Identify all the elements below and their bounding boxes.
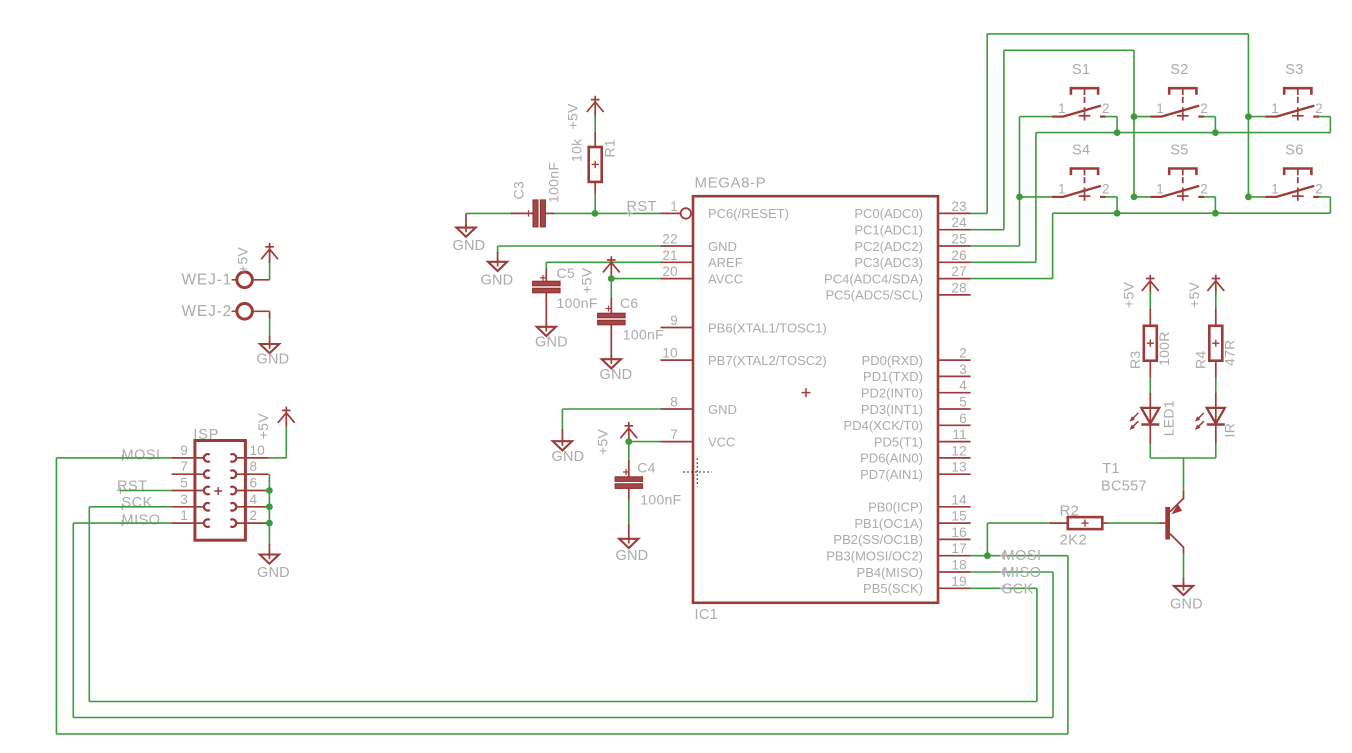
svg-text:1: 1	[180, 508, 188, 523]
svg-text:WEJ-1: WEJ-1	[182, 271, 233, 288]
svg-text:2: 2	[1102, 181, 1110, 196]
IC1 pin 23 PC0(ADC0) stub+number+name	[854, 199, 970, 221]
svg-text:ISP: ISP	[193, 427, 219, 443]
switch S3	[1265, 62, 1323, 120]
cursor crosshair	[683, 458, 712, 487]
IC1 pin 28 PC5(ADC5/SCL) stub+number+name	[825, 280, 970, 302]
label 2K2 for R2	[1060, 532, 1088, 549]
svg-text:8: 8	[250, 459, 258, 474]
wire S2 output drop	[1204, 117, 1215, 133]
svg-text:7: 7	[180, 459, 188, 474]
label MISO at ISP	[119, 513, 160, 529]
svg-text:22: 22	[662, 232, 678, 247]
node ISP pin6 junction	[266, 487, 273, 494]
wire SCK ISP segment	[89, 506, 171, 508]
switch S1	[1052, 62, 1110, 120]
svg-text:PC6(/RESET): PC6(/RESET)	[708, 206, 789, 221]
node junction VCC	[625, 438, 632, 445]
wire MOSI right vertical	[1067, 556, 1069, 734]
wire IC pin22 GND net	[498, 246, 661, 262]
svg-text:GND: GND	[257, 565, 290, 581]
IC1 pin 21 AREF stub+number+name	[661, 248, 743, 270]
svg-text:R3: R3	[1127, 351, 1143, 370]
svg-text:PC3(ADC3): PC3(ADC3)	[854, 255, 923, 270]
LED LED1	[1130, 407, 1160, 430]
label +5V for WEJ-1	[235, 246, 251, 273]
wire S3 output	[1319, 116, 1330, 118]
svg-text:2: 2	[1200, 181, 1208, 196]
svg-text:PC4(ADC4/SDA): PC4(ADC4/SDA)	[824, 271, 923, 286]
svg-text:PB1(OC1A): PB1(OC1A)	[854, 516, 923, 531]
wire R3 top	[1149, 292, 1151, 326]
ISP pin 7 left	[172, 459, 210, 478]
wire IC pin19 SCK segment	[971, 587, 1037, 589]
svg-text:3: 3	[180, 492, 188, 507]
IC1 pin 13 PD7(AIN1) stub+number+name	[860, 460, 970, 482]
wire IC pin7 VCC net	[629, 436, 661, 442]
svg-text:GND: GND	[708, 239, 737, 254]
label 100nF for C5	[557, 295, 598, 311]
IC1 pin 15 PB1(OC1A) stub+number+name	[854, 509, 970, 531]
svg-text:5: 5	[180, 476, 188, 491]
svg-text:3: 3	[959, 362, 967, 377]
svg-text:RST: RST	[117, 479, 148, 495]
svg-text:5: 5	[959, 395, 967, 410]
svg-text:2: 2	[1315, 181, 1323, 196]
svg-text:S4: S4	[1072, 143, 1090, 159]
svg-text:AVCC: AVCC	[708, 271, 743, 286]
svg-text:PC5(ADC5/SCL): PC5(ADC5/SCL)	[825, 288, 923, 303]
svg-text:+5V: +5V	[579, 267, 595, 294]
IC1 pin 25 PC2(ADC2) stub+number+name	[854, 232, 970, 254]
wire IC pin21 AREF to C5	[546, 262, 660, 270]
ground for C4	[616, 536, 649, 564]
svg-text:9: 9	[180, 443, 188, 458]
svg-text:PB6(XTAL1/TOSC1): PB6(XTAL1/TOSC1)	[708, 320, 827, 335]
svg-text:PD1(TXD): PD1(TXD)	[863, 369, 923, 384]
wire bus2 horizontal	[1053, 212, 1331, 214]
switch S6	[1265, 143, 1323, 201]
svg-text:MISO: MISO	[122, 513, 161, 529]
wire pin17 to R2 riser	[986, 523, 988, 556]
ground for C3 left	[453, 213, 486, 253]
svg-text:2: 2	[250, 508, 258, 523]
svg-text:S1: S1	[1072, 62, 1090, 78]
ground for ISP	[257, 552, 290, 582]
wire S6 feed	[1248, 196, 1265, 198]
label MOSI at IC	[1000, 548, 1042, 564]
svg-text:PB4(MISO): PB4(MISO)	[857, 565, 923, 580]
svg-text:MOSI: MOSI	[1003, 548, 1042, 564]
resistor R3 100R	[1144, 326, 1157, 361]
svg-text:S2: S2	[1170, 62, 1188, 78]
svg-text:PB2(SS/OC1B): PB2(SS/OC1B)	[833, 532, 923, 547]
IC1 pin 27 PC4(ADC4/SDA) stub+number+name	[824, 264, 971, 286]
IC1 pin 12 PD6(AIN0) stub+number+name	[860, 443, 970, 465]
wire S5 output drop	[1204, 197, 1215, 213]
svg-text:24: 24	[951, 215, 967, 230]
wire bus2 left vertical	[1052, 213, 1054, 278]
ground for WEJ-2	[257, 341, 290, 367]
wire ISP pin10 to +5V	[269, 425, 287, 458]
svg-text:PD4(XCK/T0): PD4(XCK/T0)	[844, 418, 923, 433]
svg-text:BC557: BC557	[1101, 478, 1147, 494]
svg-text:2: 2	[1102, 101, 1110, 116]
ground for C6	[600, 356, 633, 383]
wire WEJ-1 to +5V	[253, 260, 270, 280]
svg-text:100R: 100R	[1156, 331, 1172, 366]
svg-text:IC1: IC1	[695, 607, 718, 623]
wire IC pin8 GND net	[562, 409, 660, 441]
label RST at IC pin1	[626, 199, 657, 217]
wire top rail S2/S5 column	[1004, 49, 1134, 51]
svg-text:GND: GND	[535, 334, 568, 350]
connector ISP body	[193, 427, 245, 540]
svg-text:1: 1	[1156, 101, 1164, 116]
node S6 feed junction	[1245, 194, 1252, 201]
IC1 pin 3 PD1(TXD) stub+number+name	[863, 362, 971, 384]
svg-text:S6: S6	[1285, 143, 1303, 159]
power +5V for WEJ-1	[261, 243, 278, 263]
svg-text:S5: S5	[1170, 143, 1188, 159]
wire R4 to LED	[1215, 361, 1217, 408]
svg-text:R4: R4	[1192, 351, 1208, 370]
label 10k for R1	[569, 138, 585, 162]
wire pin26 to riser	[971, 261, 1036, 263]
label +5V for ISP	[255, 413, 271, 440]
svg-text:27: 27	[951, 264, 967, 279]
wire bus1 right up	[1329, 117, 1331, 133]
wire R2 right to base	[1102, 522, 1165, 524]
wire pin24 to riser	[971, 229, 1004, 231]
ISP pin 6 right	[230, 476, 268, 495]
IC1 pin 2 PD0(RXD) stub+number+name	[862, 346, 971, 368]
wire WEJ-2 to GND	[253, 311, 270, 344]
wire S3/S6 column vertical	[1247, 34, 1249, 197]
label MOSI at ISP	[119, 448, 160, 464]
svg-text:1: 1	[1058, 181, 1066, 196]
label 47R	[1221, 339, 1237, 366]
ground for T1	[1170, 583, 1203, 613]
label 100nF for C3	[546, 162, 562, 203]
IC1 pin 5 PD3(INT1) stub+number+name	[861, 395, 971, 417]
node junction RST/R1	[592, 210, 599, 217]
svg-text:PD3(INT1): PD3(INT1)	[861, 402, 923, 417]
svg-text:PB7(XTAL2/TOSC2): PB7(XTAL2/TOSC2)	[708, 353, 827, 368]
svg-text:+5V: +5V	[595, 428, 611, 455]
power +5V above R1	[587, 96, 604, 116]
node bus2 S5 junction	[1212, 210, 1219, 217]
svg-text:21: 21	[662, 248, 678, 263]
switch S5	[1150, 143, 1208, 201]
wire S4 feed	[1020, 196, 1053, 198]
svg-text:18: 18	[951, 558, 967, 573]
ISP pin 3 left	[172, 492, 210, 511]
label RST at ISP	[117, 479, 148, 495]
IC1 pin 18 PB4(MISO) stub+number+name	[857, 558, 971, 580]
ISP pin 10 right	[230, 443, 268, 462]
svg-text:6: 6	[250, 476, 258, 491]
ISP pin 9 left	[172, 443, 210, 462]
label C5	[557, 265, 576, 281]
svg-text:28: 28	[951, 280, 967, 295]
svg-text:GND: GND	[1170, 597, 1203, 613]
label C6	[620, 295, 639, 311]
IC1 pin 1 PC6(/RESET) stub+number+name	[661, 199, 789, 221]
wire ISP GND chain pins 8-6-4-2	[268, 474, 270, 554]
ground for C5	[535, 324, 568, 351]
svg-text:GND: GND	[600, 367, 633, 383]
IC1 pin 4 PD2(INT0) stub+number+name	[861, 378, 971, 400]
label 100R	[1156, 331, 1172, 366]
resistor R1 vertical 10k	[589, 112, 602, 214]
node junction AVCC	[608, 275, 615, 282]
label C3	[511, 181, 527, 200]
wire bus2 right up	[1329, 197, 1331, 213]
resistor R4 47R	[1209, 326, 1222, 361]
svg-text:6: 6	[959, 411, 967, 426]
wire SCK left vertical	[88, 507, 90, 702]
svg-text:8: 8	[670, 395, 678, 410]
IC1 pin 9 PB6(XTAL1/TOSC1) stub+number+name	[661, 313, 827, 335]
wire pin27 to riser	[971, 278, 1053, 280]
wire S2 feed	[1134, 116, 1150, 118]
label C4	[637, 459, 656, 475]
svg-text:1: 1	[1058, 101, 1066, 116]
svg-text:+5V: +5V	[235, 246, 251, 273]
wire MISO bottom rail	[73, 717, 1053, 719]
wire SCK bottom rail	[89, 701, 1037, 703]
svg-text:1: 1	[1156, 181, 1164, 196]
wire pin25 to riser	[971, 245, 1020, 247]
pad WEJ-2	[182, 303, 253, 320]
wire IR bottom	[1215, 426, 1217, 458]
transistor T1 BC557	[1165, 498, 1183, 547]
svg-text:+5V: +5V	[1186, 281, 1202, 308]
svg-text:C5: C5	[557, 265, 576, 281]
svg-text:C3: C3	[511, 181, 527, 200]
wire MISO right vertical	[1052, 572, 1054, 718]
svg-text:17: 17	[951, 541, 967, 556]
IC1 pin 24 PC1(ADC1) stub+number+name	[854, 215, 970, 237]
IC1 pin 26 PC3(ADC3) stub+number+name	[854, 248, 970, 270]
svg-text:+5V: +5V	[565, 103, 581, 130]
wire MOSI bottom rail	[56, 733, 1068, 735]
label IR	[1222, 423, 1238, 438]
wire IC pin20 AVCC net	[611, 272, 660, 279]
IC1 pin 19 PB5(SCK) stub+number+name	[863, 574, 971, 596]
svg-text:RST: RST	[627, 199, 658, 215]
label 100nF for C4	[640, 492, 681, 508]
wire IC pin18 MISO segment	[971, 571, 1053, 573]
svg-text:+5V: +5V	[1121, 281, 1137, 308]
wire S6 output	[1319, 196, 1330, 198]
label T1	[1102, 461, 1120, 477]
node S4 feed junction	[1016, 194, 1023, 201]
wire RST net C3-right to R1 junction to IC pin1	[552, 212, 661, 214]
IC IC1 MEGA8-P body outline with origin cross and title labels	[693, 175, 938, 624]
svg-text:+5V: +5V	[255, 413, 271, 440]
node ISP pin4 junction	[266, 503, 273, 510]
svg-text:WEJ-2: WEJ-2	[182, 303, 233, 320]
IC1 pin 6 PD4(XCK/T0) stub+number+name	[844, 411, 971, 433]
svg-text:PD2(INT0): PD2(INT0)	[861, 386, 923, 401]
svg-text:SCK: SCK	[1003, 581, 1034, 597]
wire LED1 bottom	[1149, 426, 1151, 458]
wire bus1 horizontal	[1036, 132, 1331, 134]
LED IR	[1195, 407, 1225, 430]
wire MOSI ISP segment	[56, 457, 171, 459]
svg-text:R2: R2	[1060, 502, 1080, 519]
IC1 pin 22 GND stub+number+name	[661, 232, 737, 254]
wire top rail S3/S6 column	[987, 33, 1248, 35]
wire S1 feed	[1020, 116, 1053, 118]
ground for pin8	[552, 438, 585, 465]
svg-text:R1: R1	[602, 139, 618, 158]
label +5V for R4	[1186, 281, 1202, 308]
wire bus1 left vertical	[1035, 133, 1037, 263]
label MISO at IC	[1000, 565, 1042, 581]
node S3 feed junction	[1245, 113, 1252, 120]
svg-text:GND: GND	[708, 402, 737, 417]
wire R3 to LED	[1149, 361, 1151, 408]
wire MOSI left vertical	[55, 458, 57, 734]
svg-text:PD6(AIN0): PD6(AIN0)	[860, 451, 923, 466]
wire MISO left vertical	[72, 523, 74, 717]
label +5V for R3	[1121, 281, 1137, 308]
svg-text:MOSI: MOSI	[122, 448, 161, 464]
wire S5 feed	[1134, 196, 1150, 198]
node S5 feed junction	[1131, 194, 1138, 201]
ISP pin 5 left	[172, 476, 210, 495]
svg-text:2: 2	[1200, 101, 1208, 116]
wire S3 feed	[1248, 116, 1265, 118]
svg-text:PC1(ADC1): PC1(ADC1)	[854, 223, 923, 238]
svg-text:GND: GND	[552, 449, 585, 465]
svg-text:IR: IR	[1222, 423, 1238, 438]
label R2	[1060, 502, 1080, 519]
svg-text:S3: S3	[1285, 62, 1303, 78]
capacitor C4 100nF	[615, 442, 643, 539]
wire LED cathodes join	[1150, 457, 1216, 459]
svg-text:VCC: VCC	[708, 434, 735, 449]
wire IC pin17 MOSI segment	[971, 555, 1068, 557]
ISP pin 4 right	[230, 492, 268, 511]
label R4	[1192, 351, 1208, 370]
label R1	[602, 139, 618, 158]
ground for pin22	[481, 259, 514, 289]
label SCK at IC	[1000, 581, 1034, 597]
svg-text:AREF: AREF	[708, 255, 743, 270]
svg-text:MISO: MISO	[1003, 565, 1042, 581]
wire S1 output drop	[1106, 117, 1117, 133]
wire pin23 to riser	[971, 212, 988, 214]
wire S1/S4 column vertical	[1019, 117, 1021, 246]
switch S2	[1150, 62, 1208, 120]
power +5V for R3	[1142, 275, 1159, 295]
node junction pin17	[984, 552, 991, 559]
svg-text:2: 2	[959, 346, 967, 361]
svg-text:C6: C6	[620, 295, 639, 311]
IC1 pin 16 PB2(SS/OC1B) stub+number+name	[833, 525, 970, 547]
power +5V for ISP	[278, 407, 295, 427]
wire SCK right vertical	[1036, 588, 1038, 701]
svg-text:19: 19	[951, 574, 967, 589]
svg-text:2: 2	[1315, 101, 1323, 116]
label LED1	[1161, 400, 1177, 436]
svg-text:14: 14	[951, 492, 967, 507]
svg-text:47R: 47R	[1221, 339, 1237, 366]
IC1 pin 7 VCC stub+number+name	[661, 427, 736, 449]
svg-text:11: 11	[952, 427, 967, 442]
wire R4 top	[1215, 292, 1217, 326]
label SCK at ISP	[119, 495, 153, 511]
node bus1 S1 junction	[1114, 129, 1121, 136]
label 100nF for C6	[623, 326, 664, 342]
svg-text:SCK: SCK	[122, 495, 153, 511]
svg-text:4: 4	[250, 492, 258, 507]
svg-text:GND: GND	[453, 238, 486, 254]
svg-text:100nF: 100nF	[623, 326, 664, 342]
svg-text:MEGA8-P: MEGA8-P	[695, 175, 767, 192]
power +5V for VCC	[620, 422, 637, 442]
svg-text:100nF: 100nF	[546, 162, 562, 203]
svg-text:T1: T1	[1102, 461, 1120, 477]
wire RST ISP segment	[120, 490, 171, 492]
svg-text:PD5(T1): PD5(T1)	[874, 434, 923, 449]
capacitor C5 100nF	[533, 269, 561, 327]
svg-text:26: 26	[951, 248, 967, 263]
svg-text:GND: GND	[481, 272, 514, 288]
capacitor C6 100nF	[598, 279, 626, 360]
svg-text:PB0(ICP): PB0(ICP)	[868, 500, 923, 515]
label +5V for AVCC	[579, 267, 595, 294]
IC1 pin 11 PD5(T1) stub+number+name	[874, 427, 971, 449]
IC1 pin 17 PB3(MOSI/OC2) stub+number+name	[826, 541, 970, 563]
capacitor C3 100nF horizontal	[466, 200, 554, 227]
svg-text:20: 20	[662, 264, 678, 279]
resistor R2 2K2	[1068, 517, 1103, 529]
svg-text:C4: C4	[637, 459, 656, 475]
svg-text:25: 25	[951, 232, 967, 247]
svg-text:9: 9	[670, 313, 678, 328]
wire riser pin23 vertical	[986, 34, 988, 214]
node ISP pin2 junction	[266, 520, 273, 527]
wire collector to GND	[1183, 547, 1185, 586]
svg-text:15: 15	[951, 509, 967, 524]
IC1 pin 10 PB7(XTAL2/TOSC2) stub+number+name	[661, 346, 827, 368]
svg-text:4: 4	[959, 378, 967, 393]
svg-text:1: 1	[1271, 181, 1279, 196]
svg-text:10: 10	[250, 443, 266, 458]
wire emitter riser	[1183, 458, 1185, 500]
switch S4	[1052, 143, 1110, 201]
svg-text:13: 13	[951, 460, 967, 475]
IC1 pin 8 GND stub+number+name	[661, 395, 737, 417]
wire riser pin24 vertical	[1003, 50, 1005, 229]
svg-text:10k: 10k	[569, 138, 585, 162]
ISP pin 2 right	[230, 508, 268, 527]
ISP pin 1 left	[172, 508, 210, 527]
label +5V for VCC	[595, 428, 611, 455]
wire S4 output drop	[1106, 197, 1117, 213]
svg-text:100nF: 100nF	[557, 295, 598, 311]
node bus2 S4 junction	[1114, 210, 1121, 217]
wire R2 left	[987, 522, 1067, 524]
svg-text:PB5(SCK): PB5(SCK)	[863, 581, 923, 596]
svg-text:PD7(AIN1): PD7(AIN1)	[860, 467, 923, 482]
svg-text:PC2(ADC2): PC2(ADC2)	[854, 239, 923, 254]
